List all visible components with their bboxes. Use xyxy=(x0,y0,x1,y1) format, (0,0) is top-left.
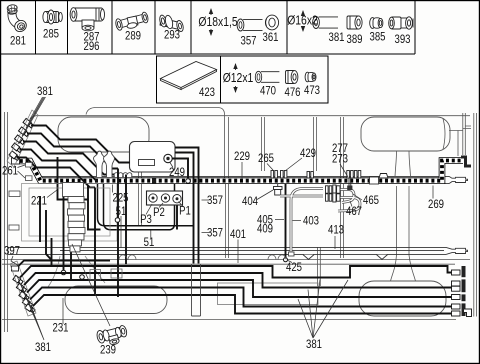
svg-text:403: 403 xyxy=(303,215,319,228)
thick pipes from valve block to the right/down xyxy=(172,148,199,264)
svg-text:231: 231 xyxy=(52,322,68,335)
wire run 266 step at 272.5 to conn2 xyxy=(20,266,452,278)
union fitting 293 xyxy=(159,14,185,32)
svg-text:269: 269 xyxy=(428,198,444,211)
leader 269 xyxy=(432,186,434,199)
thin leader lines xyxy=(11,158,433,340)
bottom-right tank xyxy=(359,281,446,316)
leader 265 xyxy=(267,164,273,171)
clamp bump on chain right xyxy=(379,174,388,179)
wire run 272.5 step at 262.5 to conn3 xyxy=(24,273,452,288)
svg-text:225: 225 xyxy=(112,192,128,205)
leader 405/409 xyxy=(275,219,284,221)
right top C-bracket xyxy=(449,113,471,156)
left edge stub rects xyxy=(9,163,32,231)
svg-text:P3: P3 xyxy=(140,213,152,226)
coiled bundle column xyxy=(63,183,86,252)
cross member pair 1 xyxy=(226,117,229,258)
svg-text:239: 239 xyxy=(100,344,116,357)
sleeve 385 xyxy=(370,18,383,29)
cross member pair 3 xyxy=(314,117,317,171)
nut 389 xyxy=(347,16,362,29)
bottom-left long tank xyxy=(65,286,167,314)
svg-text:404: 404 xyxy=(242,195,258,208)
thick vertical 425 pipe xyxy=(285,184,287,258)
right frame member xyxy=(474,113,477,317)
svg-text:401: 401 xyxy=(230,228,246,241)
thick pipes: top-left cascade xyxy=(17,126,131,188)
bellows component (two wavy posts) xyxy=(94,151,105,177)
leader 404 xyxy=(257,190,273,200)
svg-text:P2: P2 xyxy=(153,206,165,219)
wire cascade pipe 2 xyxy=(27,134,118,169)
wire cascade pipe 1 xyxy=(31,126,130,163)
tube 381 xyxy=(313,17,338,29)
svg-text:261: 261 xyxy=(2,165,18,178)
svg-text:51: 51 xyxy=(116,205,127,218)
triangle bracket on rail xyxy=(303,255,388,260)
svg-text:265: 265 xyxy=(258,152,274,165)
leader 413 xyxy=(334,236,336,249)
tube 470 xyxy=(255,71,279,82)
leader 239 xyxy=(72,244,110,326)
white connector box on chain xyxy=(370,177,379,184)
svg-text:381: 381 xyxy=(35,341,51,354)
svg-text:429: 429 xyxy=(300,147,316,160)
top-left tank xyxy=(58,117,149,152)
gray hoses (outlined tubes) xyxy=(280,189,360,253)
svg-text:381: 381 xyxy=(328,31,344,44)
svg-text:P1: P1 xyxy=(179,205,191,218)
dimension Ø18x1,5 xyxy=(210,9,212,35)
leader 403 xyxy=(293,220,302,222)
chain harness line xyxy=(14,161,463,181)
wire vertical x118 xyxy=(117,169,119,298)
light hose curves under bundle xyxy=(48,256,105,287)
leader 261 upper xyxy=(18,165,26,168)
239 T-fitting icon xyxy=(96,324,129,348)
leaders 381 bottom-left xyxy=(17,276,44,340)
top rail xyxy=(29,116,470,121)
equipment box bottom middle xyxy=(218,283,319,305)
small bracket rects below rail xyxy=(90,270,101,281)
svg-text:361: 361 xyxy=(262,31,278,44)
svg-text:470: 470 xyxy=(260,85,276,98)
wire from valve block port 2 xyxy=(175,153,194,264)
leader P3 xyxy=(146,204,152,215)
cab back wall xyxy=(101,152,103,167)
rail band 2 lines xyxy=(8,247,446,254)
junction on chain xyxy=(186,179,191,184)
svg-text:393: 393 xyxy=(394,33,410,46)
svg-text:357: 357 xyxy=(240,35,256,48)
port circle on valve block xyxy=(164,154,172,162)
dimension Ø16x2 xyxy=(302,11,304,31)
rail band 2 tongue xyxy=(446,247,468,254)
chassis light lines xyxy=(2,108,476,333)
wire from valve block port 1 xyxy=(175,148,199,264)
lower rail lines xyxy=(2,260,470,265)
wire vertical x95 xyxy=(94,188,96,296)
small arcs on rail2 xyxy=(119,255,286,260)
leader 397 xyxy=(11,256,19,266)
svg-text:409: 409 xyxy=(257,223,273,236)
svg-text:229: 229 xyxy=(234,150,250,163)
left bundle verticals xyxy=(40,169,126,298)
wire run 280 step at 253 to conn4 xyxy=(27,280,452,297)
thin drops from clamps to hoses xyxy=(349,179,351,187)
hose couplings 465 xyxy=(326,185,341,202)
omega curls on harness xyxy=(114,173,123,177)
leader 357 upper xyxy=(202,199,210,201)
svg-text:381: 381 xyxy=(37,85,53,98)
leaders 381 bottom-center xyxy=(298,280,348,339)
wire from gauge P1 down xyxy=(176,205,178,230)
tube 357 xyxy=(237,19,262,31)
thin duct below verticals xyxy=(192,264,201,316)
wire L-shape x88 xyxy=(88,185,101,230)
leader 51 lower xyxy=(150,231,152,239)
T-fitting 289 xyxy=(115,12,149,31)
leader 261 lower xyxy=(18,171,26,178)
chain end bracket xyxy=(461,156,471,168)
wire cascade pipe 3 xyxy=(23,142,126,175)
leader 401 xyxy=(237,240,239,264)
wire from valve block port circle to chain junction xyxy=(172,159,188,178)
ring 361 xyxy=(265,15,278,30)
light panel rects xyxy=(22,184,118,242)
svg-text:476: 476 xyxy=(284,86,300,99)
svg-text:296: 296 xyxy=(83,40,99,53)
right connector column xyxy=(462,266,466,316)
cab outline xyxy=(86,108,225,180)
svg-text:Ø16x2: Ø16x2 xyxy=(287,13,318,27)
svg-text:413: 413 xyxy=(328,224,344,237)
union fitting 285 xyxy=(43,10,62,24)
rail band 1 tongue xyxy=(449,176,468,183)
wire cascade pipe 5 xyxy=(17,158,96,188)
top-left connector plugs xyxy=(9,118,34,161)
leader P2 xyxy=(159,203,163,208)
svg-text:281: 281 xyxy=(10,35,26,48)
leader 429 xyxy=(285,158,302,171)
bottom-left connector plugs xyxy=(13,275,36,313)
bottom horizontal thick pipe runs xyxy=(18,261,452,314)
valve block U1 xyxy=(130,142,176,173)
wire vertical x63 xyxy=(63,196,65,273)
elbow fitting 281 xyxy=(7,4,29,34)
wire vertical x126 xyxy=(125,175,127,265)
wire run 287.5 step at 243.5 to conn5 xyxy=(30,288,452,307)
svg-text:293: 293 xyxy=(164,29,180,42)
leader 221 xyxy=(47,190,57,198)
leader 357 lower xyxy=(202,232,210,234)
dimension Ø12x1 xyxy=(235,64,237,92)
svg-text:423: 423 xyxy=(199,86,215,99)
svg-text:51: 51 xyxy=(144,236,155,249)
chain start connector box xyxy=(12,158,20,164)
leader 51 upper xyxy=(120,216,122,248)
sleeve 473 xyxy=(305,72,316,82)
label 381 top leaders xyxy=(18,97,46,144)
svg-text:397: 397 xyxy=(4,245,20,258)
leader 249 xyxy=(170,163,173,168)
diamond node 425 xyxy=(284,258,288,262)
svg-text:389: 389 xyxy=(346,33,362,46)
svg-text:285: 285 xyxy=(43,28,59,41)
wire vertical x40 xyxy=(39,196,41,242)
pipe clamps on chain xyxy=(271,171,361,179)
tank support legs right xyxy=(395,151,411,255)
svg-text:221: 221 xyxy=(31,195,47,208)
leader 465 xyxy=(353,194,362,200)
svg-text:289: 289 xyxy=(125,30,141,43)
svg-text:465: 465 xyxy=(363,194,379,207)
cross member pair 2 xyxy=(341,117,344,258)
T-fitting 287/296 xyxy=(70,8,104,31)
svg-text:249: 249 xyxy=(169,166,185,179)
svg-text:425: 425 xyxy=(286,261,302,274)
leader 225 xyxy=(112,185,114,193)
left tank support pair xyxy=(139,152,142,226)
svg-text:473: 473 xyxy=(304,84,320,97)
leader 425 xyxy=(288,261,292,263)
leader P1 xyxy=(179,202,184,207)
cross pair near bottom right tank xyxy=(318,248,321,287)
union 393 xyxy=(389,17,413,29)
svg-text:467: 467 xyxy=(346,205,362,218)
thick rect (mounting frame) inner xyxy=(104,184,175,230)
pressure gauge box P1 P2 P3 xyxy=(147,191,183,205)
wire vertical x51 xyxy=(51,238,53,266)
leader 229 xyxy=(241,162,243,179)
bottom frame line xyxy=(2,319,456,321)
svg-text:273: 273 xyxy=(332,153,348,166)
short top run xyxy=(18,261,110,267)
left frame member xyxy=(5,112,8,332)
leader 277/273 xyxy=(340,164,348,177)
404 fitting and thin line xyxy=(277,184,279,187)
L pipe near castle xyxy=(58,157,89,200)
plate 423 xyxy=(161,62,217,90)
nut 476 xyxy=(286,71,298,84)
thick rect (mounting frame) outer xyxy=(98,184,194,226)
svg-text:Ø18x1,5: Ø18x1,5 xyxy=(198,15,238,29)
leader 467 xyxy=(350,201,352,207)
svg-text:385: 385 xyxy=(369,31,385,44)
wire run 295 step at 235 to conn6 xyxy=(33,295,452,314)
svg-text:357: 357 xyxy=(207,194,223,207)
top-right tank xyxy=(361,117,450,151)
wire vertical x71 xyxy=(70,200,72,280)
svg-text:381: 381 xyxy=(306,338,322,351)
plate behind top plugs xyxy=(7,110,38,167)
cross member pair 4 xyxy=(262,117,265,171)
svg-text:Ø12x1: Ø12x1 xyxy=(223,71,254,85)
wire vertical x46 with elbow xyxy=(46,210,52,261)
svg-text:357: 357 xyxy=(207,227,223,240)
leader 231 xyxy=(62,298,64,324)
rail band 1 lines xyxy=(41,176,450,183)
wire cascade pipe 4 xyxy=(20,150,98,182)
